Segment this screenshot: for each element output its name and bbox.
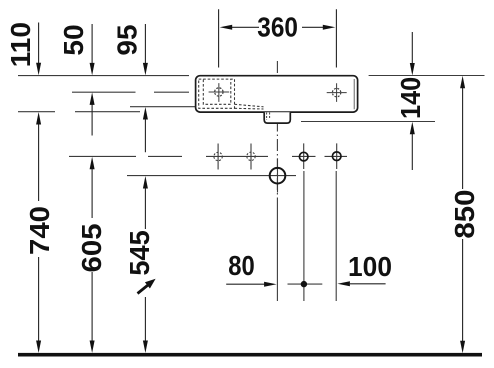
svg-text:95: 95 (112, 24, 143, 55)
svg-text:80: 80 (228, 249, 254, 281)
svg-text:850: 850 (450, 190, 481, 239)
svg-text:100: 100 (348, 250, 392, 282)
svg-text:605: 605 (77, 223, 108, 272)
svg-text:110: 110 (5, 22, 36, 67)
svg-text:140: 140 (395, 77, 426, 119)
svg-text:360: 360 (257, 11, 298, 43)
svg-text:50: 50 (58, 24, 89, 55)
svg-text:545: 545 (124, 230, 155, 275)
svg-text:740: 740 (25, 206, 56, 255)
